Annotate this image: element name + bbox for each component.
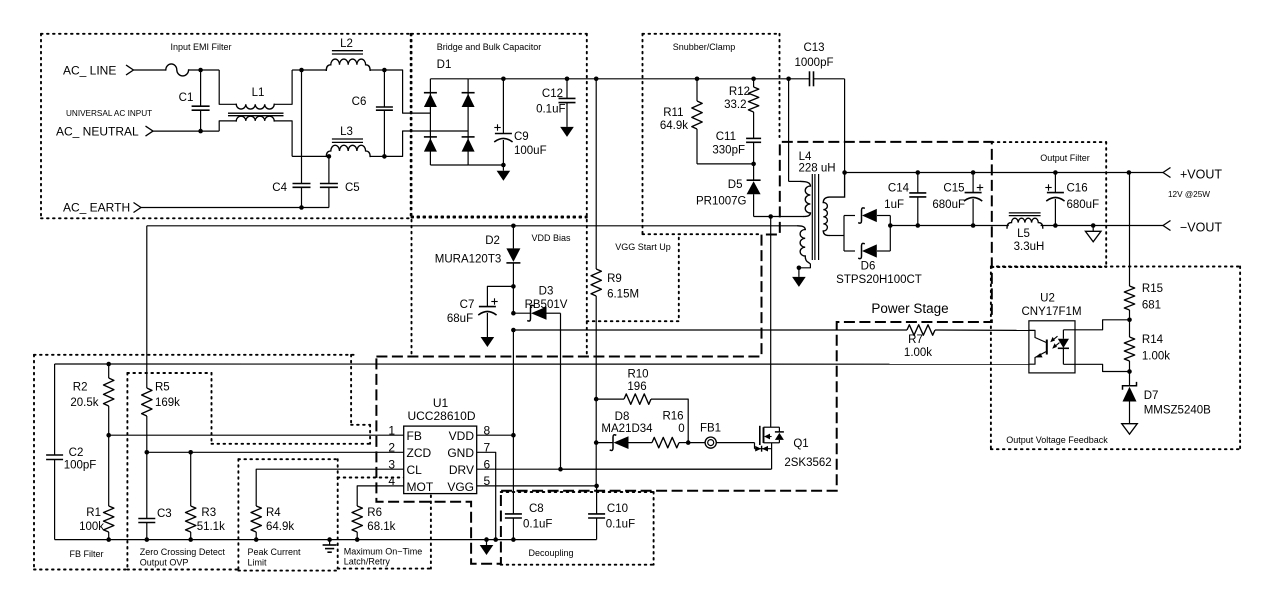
svg-text:Output Voltage Feedback: Output Voltage Feedback	[1006, 435, 1108, 445]
svg-text:Q1: Q1	[793, 438, 808, 450]
svg-text:R7: R7	[908, 334, 923, 346]
capacitor C5	[328, 156, 330, 183]
svg-text:12V @25W: 12V @25W	[1168, 190, 1210, 199]
svg-text:2SK3562: 2SK3562	[784, 457, 831, 469]
svg-text:C16: C16	[1067, 183, 1088, 195]
wire L3 out to bridge	[384, 131, 468, 156]
svg-text:C3: C3	[157, 508, 172, 520]
ground below C9	[502, 165, 504, 171]
svg-text:VGG: VGG	[447, 480, 474, 494]
capacitor C7	[487, 286, 513, 306]
capacitor C15	[971, 170, 976, 175]
svg-text:3.3uH: 3.3uH	[1014, 241, 1045, 253]
svg-text:2: 2	[388, 440, 395, 454]
svg-text:680uF: 680uF	[1067, 199, 1100, 211]
svg-text:R1: R1	[86, 507, 101, 519]
svg-text:C7: C7	[460, 299, 475, 311]
svg-text:4: 4	[388, 474, 395, 488]
wire MOT (pin4) + resistor R6	[357, 486, 404, 506]
svg-text:R3: R3	[201, 507, 216, 519]
svg-text:MOT: MOT	[407, 480, 434, 494]
diode D6 (dual schottky)	[843, 216, 845, 252]
svg-text:MURA120T3: MURA120T3	[435, 254, 501, 266]
U2 LED	[1062, 330, 1064, 339]
svg-text:R12: R12	[729, 86, 750, 98]
Snubber/Clamp box	[643, 33, 780, 35]
wire GND (pin7)	[477, 452, 496, 539]
svg-text:Input EMI Filter: Input EMI Filter	[170, 42, 231, 52]
fuse F1	[166, 64, 189, 76]
svg-text:+VOUT: +VOUT	[1180, 168, 1222, 182]
wire FB (pin1)	[109, 434, 404, 436]
resistor R7	[907, 325, 935, 335]
svg-text:D7: D7	[1144, 390, 1159, 402]
svg-text:C1: C1	[179, 92, 194, 104]
ferrite bead FB1	[688, 442, 705, 444]
svg-text:0.1uF: 0.1uF	[536, 104, 565, 116]
Maximum On-Time Latch/Retry box	[338, 477, 431, 479]
wire bridge bottom	[468, 164, 503, 166]
svg-text:AC_ LINE: AC_ LINE	[63, 64, 116, 78]
wire snubber bottom	[697, 163, 754, 165]
wire R7 rail (y=330)	[511, 328, 516, 333]
Q1 drain	[770, 217, 772, 428]
svg-text:196: 196	[627, 381, 646, 393]
svg-text:Latch/Retry: Latch/Retry	[344, 557, 391, 567]
svg-text:C10: C10	[607, 503, 628, 515]
capacitor C3	[146, 452, 148, 518]
zener diode D7	[1129, 372, 1131, 386]
capacitor C9	[501, 77, 506, 82]
svg-text:100uF: 100uF	[514, 145, 547, 157]
svg-text:R15: R15	[1142, 283, 1163, 295]
svg-text:64.9k: 64.9k	[266, 521, 294, 533]
Output Filter box	[992, 141, 1106, 143]
capacitor C13	[786, 77, 791, 82]
L4 secondary winding	[823, 173, 844, 203]
svg-text:AC_ NEUTRAL: AC_ NEUTRAL	[56, 125, 139, 139]
ground at -VOUT	[1091, 223, 1096, 228]
svg-text:C2: C2	[69, 447, 84, 459]
svg-text:U2: U2	[1040, 293, 1055, 305]
svg-text:MMSZ5240B: MMSZ5240B	[1144, 405, 1211, 417]
L4 aux winding	[798, 226, 805, 230]
aux winding to ground	[799, 263, 811, 268]
resistor R15	[1129, 173, 1131, 287]
svg-text:33.2: 33.2	[724, 99, 746, 111]
svg-text:UCC28610D: UCC28610D	[407, 409, 475, 423]
U2 LED cathode wire to R14/D7 node	[1063, 364, 1129, 371]
Q1 gate lead with protection diodes	[754, 443, 756, 449]
wire opto emitter to FB network (y=364)	[55, 363, 1029, 365]
svg-text:C12: C12	[542, 88, 563, 100]
svg-text:DRV: DRV	[449, 463, 474, 477]
svg-text:R16: R16	[662, 411, 683, 423]
wire C13 right to VOUT rail	[844, 79, 846, 173]
svg-text:VDD Bias: VDD Bias	[531, 233, 571, 243]
svg-text:D3: D3	[539, 286, 554, 298]
svg-text:Output Filter: Output Filter	[1040, 153, 1090, 163]
svg-text:1: 1	[388, 423, 395, 437]
resistor R12	[751, 77, 756, 82]
svg-text:1.00k: 1.00k	[904, 347, 932, 359]
wire DRV (pin6)	[477, 468, 771, 470]
wire +VOUT rail	[845, 172, 1163, 174]
svg-text:Maximum On−Time: Maximum On−Time	[344, 547, 422, 557]
svg-text:0.1uF: 0.1uF	[606, 519, 635, 531]
inductor L5	[1009, 212, 1041, 214]
resistor R2	[106, 362, 111, 367]
diode D8	[594, 440, 599, 445]
svg-text:20.5k: 20.5k	[70, 397, 98, 409]
svg-text:1000pF: 1000pF	[794, 57, 833, 69]
svg-text:D2: D2	[485, 235, 500, 247]
svg-text:C8: C8	[529, 503, 544, 515]
capacitor C6	[383, 70, 385, 107]
svg-text:1.00k: 1.00k	[1142, 351, 1170, 363]
svg-text:C4: C4	[272, 182, 287, 194]
svg-text:680uF: 680uF	[932, 199, 965, 211]
Power Stage dashed boundary	[376, 142, 991, 564]
svg-text:68uF: 68uF	[447, 313, 473, 325]
wire CL (pin3) + resistor R4	[256, 469, 404, 506]
svg-text:330pF: 330pF	[712, 145, 745, 157]
Bridge and Bulk Capacitor box	[412, 33, 587, 35]
capacitor C14	[916, 170, 921, 175]
svg-text:AC_ EARTH: AC_ EARTH	[63, 201, 130, 215]
svg-text:R14: R14	[1142, 334, 1164, 346]
svg-text:GND: GND	[447, 446, 474, 460]
svg-text:Peak Current: Peak Current	[248, 547, 302, 557]
capacitor C12	[565, 77, 570, 82]
svg-text:0: 0	[678, 423, 684, 435]
svg-text:ZCD: ZCD	[407, 446, 432, 460]
svg-text:0.1uF: 0.1uF	[523, 519, 552, 531]
svg-text:C15: C15	[943, 183, 964, 195]
svg-text:Snubber/Clamp: Snubber/Clamp	[673, 42, 736, 52]
svg-text:Decoupling: Decoupling	[528, 548, 573, 558]
transistor Q1 2SK3562	[759, 426, 761, 445]
wire L2 out to bridge	[384, 70, 430, 113]
capacitor C10	[596, 486, 598, 514]
svg-text:R5: R5	[155, 382, 170, 394]
L4 primary winding	[801, 181, 810, 186]
capacitor C4	[301, 70, 303, 184]
Input EMI Filter box	[41, 33, 411, 35]
svg-text:MA21D34: MA21D34	[601, 423, 653, 435]
ground symbol (earth) on rail	[327, 537, 332, 542]
svg-text:CNY17F1M: CNY17F1M	[1021, 306, 1081, 318]
svg-text:C5: C5	[345, 182, 360, 194]
+VOUT terminal	[1127, 170, 1132, 175]
svg-text:51.1k: 51.1k	[197, 521, 225, 533]
svg-text:228 uH: 228 uH	[798, 163, 835, 175]
wire VGG (pin5)	[477, 485, 597, 487]
svg-text:D5: D5	[728, 179, 743, 191]
svg-text:U1: U1	[433, 396, 449, 410]
-VOUT terminal	[1163, 221, 1171, 231]
ground rail bottom	[55, 539, 597, 541]
svg-text:C6: C6	[352, 96, 367, 108]
svg-text:R9: R9	[607, 273, 622, 285]
resistor R1	[108, 435, 110, 506]
svg-text:L1: L1	[252, 87, 265, 99]
svg-text:PR1007G: PR1007G	[696, 196, 747, 208]
svg-text:C11: C11	[716, 131, 736, 143]
svg-text:−VOUT: −VOUT	[1180, 221, 1222, 235]
ground below C12	[560, 127, 574, 137]
vertical C2/R2 left	[54, 364, 56, 455]
svg-text:RB501V: RB501V	[525, 299, 568, 311]
svg-text:6.15M: 6.15M	[607, 289, 639, 301]
svg-text:R11: R11	[663, 107, 683, 119]
diode D5	[753, 164, 755, 180]
svg-text:100k: 100k	[79, 521, 104, 533]
Q1 body diode	[778, 427, 780, 432]
Peak Current Limit box	[238, 458, 337, 460]
svg-text:L5: L5	[1017, 228, 1030, 240]
svg-text:Bridge and Bulk Capacitor: Bridge and Bulk Capacitor	[437, 42, 542, 52]
svg-text:UNIVERSAL AC INPUT: UNIVERSAL AC INPUT	[66, 109, 152, 118]
wire L1 bottom to L3/C5 node	[292, 155, 329, 157]
wire L1 to L2/C4 node	[292, 69, 301, 71]
wire ZCD (pin2)	[147, 451, 404, 453]
svg-text:1uF: 1uF	[884, 199, 904, 211]
wire D5 to drain node	[754, 216, 771, 218]
svg-text:Limit: Limit	[248, 558, 268, 568]
svg-text:Power Stage: Power Stage	[871, 301, 948, 316]
svg-text:R6: R6	[367, 507, 382, 519]
capacitor C8	[512, 435, 514, 514]
svg-text:FB1: FB1	[700, 423, 721, 435]
U2 LED anode wire to R15/R14 node	[1063, 320, 1129, 330]
wire VDD node vertical	[512, 330, 514, 435]
VDD Bias box dotted edges	[412, 217, 587, 219]
svg-text:Output OVP: Output OVP	[140, 558, 189, 568]
diode D3	[512, 286, 514, 313]
wire aux/VDD bias (y=226)	[147, 225, 798, 227]
resistor R16	[652, 437, 679, 447]
svg-text:R10: R10	[627, 369, 648, 381]
svg-text:C13: C13	[803, 42, 824, 54]
wire -VOUT rail	[890, 225, 1009, 227]
VGG Start Up box	[587, 320, 679, 322]
wire D3 to DRV	[560, 313, 562, 469]
capacitor C11	[746, 137, 761, 139]
svg-text:3: 3	[388, 457, 395, 471]
svg-text:D1: D1	[437, 59, 452, 71]
wire bulk+ down to primary	[788, 79, 790, 182]
resistor R5	[146, 226, 148, 388]
FB Filter box	[34, 354, 354, 356]
svg-text:D6: D6	[861, 261, 876, 273]
svg-text:FB: FB	[407, 429, 422, 443]
svg-text:100pF: 100pF	[64, 460, 97, 472]
wire VDD (pin8)	[477, 434, 514, 436]
svg-text:L4: L4	[799, 151, 812, 163]
svg-text:L3: L3	[340, 126, 353, 138]
resistor R9 (VGG startup)	[594, 77, 599, 82]
resistor R3	[188, 450, 193, 455]
svg-text:L2: L2	[340, 38, 353, 50]
U2 phototransistor	[1029, 330, 1046, 342]
svg-text:169k: 169k	[155, 397, 180, 409]
Q1 source	[764, 442, 780, 444]
svg-text:R4: R4	[266, 507, 281, 519]
capacitor C1	[200, 70, 202, 106]
capacitor C16	[1053, 170, 1058, 175]
svg-text:VGG Start Up: VGG Start Up	[615, 242, 671, 252]
diode D2	[512, 226, 514, 249]
svg-text:681: 681	[1142, 300, 1161, 312]
Q1 body arrow	[764, 434, 770, 440]
svg-text:C9: C9	[514, 131, 529, 143]
svg-text:STPS20H100CT: STPS20H100CT	[836, 274, 922, 286]
svg-text:R2: R2	[73, 382, 88, 394]
Zero Crossing Detect / Output OVP box	[127, 372, 211, 374]
resistor R14	[1129, 320, 1131, 337]
svg-text:C14: C14	[888, 183, 910, 195]
resistor R10	[594, 397, 599, 402]
svg-text:D8: D8	[615, 411, 630, 423]
svg-text:68.1k: 68.1k	[367, 521, 395, 533]
Output Voltage Feedback box	[991, 266, 1240, 268]
Decoupling box	[501, 491, 654, 493]
resistor R11	[695, 77, 700, 82]
svg-text:VDD: VDD	[449, 429, 475, 443]
svg-text:FB Filter: FB Filter	[69, 549, 103, 559]
svg-text:Zero Crossing Detect: Zero Crossing Detect	[140, 547, 226, 557]
wire bulk+ rail	[468, 78, 788, 80]
ground arrow on rail near C8	[484, 537, 489, 542]
U2 coupling arrows	[1052, 336, 1058, 341]
svg-text:64.9k: 64.9k	[660, 120, 688, 132]
svg-text:CL: CL	[407, 463, 423, 477]
